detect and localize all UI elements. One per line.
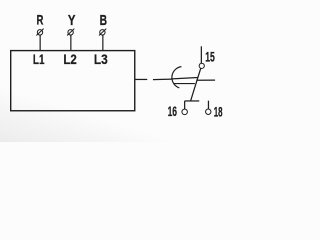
svg-text:L3: L3 (94, 52, 108, 68)
terminal B slash (99, 29, 106, 36)
wire 16 vertical (184, 101, 186, 109)
terminal R circle (37, 30, 42, 35)
wire Y to box (70, 35, 72, 51)
relay box (11, 51, 135, 111)
mechanical link dash 2 (153, 78, 172, 81)
wire terminal 15 stub (200, 46, 202, 63)
svg-text:L1: L1 (33, 52, 45, 68)
terminal 16 circle (182, 109, 188, 115)
terminal Y slash (67, 29, 74, 36)
svg-text:16: 16 (168, 104, 177, 119)
svg-text:R: R (37, 12, 44, 27)
contact 16 seat bar (185, 100, 200, 102)
svg-text:L2: L2 (63, 52, 76, 68)
wire 18 stub (207, 101, 209, 109)
delay device upper line (172, 78, 198, 79)
delay device arc (172, 67, 182, 88)
svg-text:Y: Y (68, 13, 76, 29)
wire B to box (102, 35, 104, 51)
svg-text:15: 15 (205, 50, 215, 65)
terminal 15 circle (199, 63, 204, 68)
svg-text:B: B (100, 13, 107, 29)
terminal B circle (100, 30, 105, 35)
terminal Y circle (68, 30, 73, 35)
terminal 18 circle (206, 109, 211, 114)
moving contact arm (191, 68, 201, 100)
wire right of arm (196, 79, 215, 81)
mechanical link dash 1 (135, 78, 147, 80)
wire R to box (39, 35, 41, 51)
svg-text:18: 18 (214, 104, 223, 119)
delay device lower line (174, 83, 195, 85)
terminal R slash (36, 29, 43, 36)
